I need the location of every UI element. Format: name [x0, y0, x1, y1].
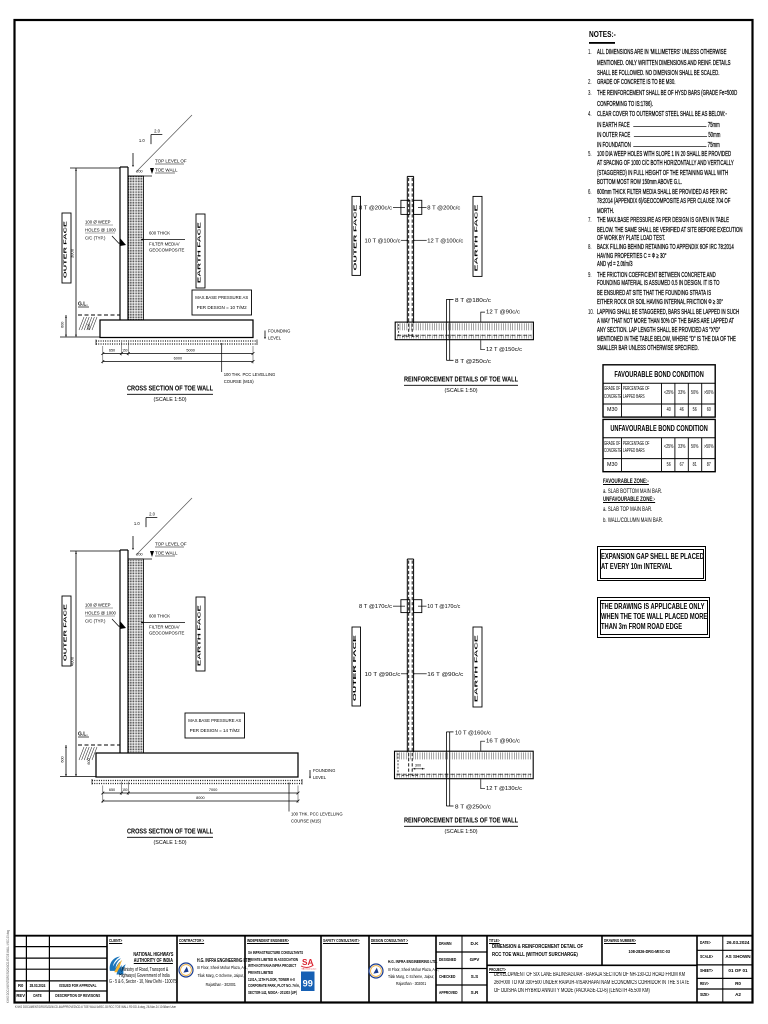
- svg-text:REINFORCEMENT DETAILS OF TOE W: REINFORCEMENT DETAILS OF TOE WALL: [404, 375, 518, 384]
- svg-text:EARTH FACE: EARTH FACE: [474, 205, 479, 272]
- svg-text:8 T @200c/c: 8 T @200c/c: [359, 205, 392, 211]
- svg-text:EARTH FACE: EARTH FACE: [197, 605, 202, 666]
- svg-text:12 T @130c/c: 12 T @130c/c: [486, 786, 522, 792]
- svg-text:600: 600: [87, 758, 91, 764]
- svg-text:OUTER FACE: OUTER FACE: [352, 635, 357, 701]
- svg-text:100 THK. PCC LEVELLING: 100 THK. PCC LEVELLING: [224, 372, 276, 377]
- svg-text:8 T @250c/c: 8 T @250c/c: [455, 805, 491, 811]
- svg-text:2.0: 2.0: [154, 129, 160, 134]
- svg-text:3000: 3000: [70, 248, 75, 258]
- svg-text:2.0: 2.0: [149, 512, 155, 517]
- svg-text:6000: 6000: [174, 357, 182, 361]
- svg-text:1.0: 1.0: [134, 521, 140, 526]
- svg-text:MAX.BASE PRESSURE AS: MAX.BASE PRESSURE AS: [195, 295, 248, 300]
- svg-text:TOE WALL: TOE WALL: [155, 168, 178, 173]
- svg-text:GEOCOMPOSITE: GEOCOMPOSITE: [149, 248, 184, 253]
- svg-text:10 T @170c/c: 10 T @170c/c: [427, 604, 460, 610]
- svg-text:650: 650: [109, 349, 115, 353]
- svg-text:10 T @160c/c: 10 T @160c/c: [455, 730, 491, 736]
- svg-text:EARTH FACE: EARTH FACE: [197, 222, 202, 283]
- svg-text:10 T @90c/c: 10 T @90c/c: [365, 672, 401, 678]
- svg-text:OUTER FACE: OUTER FACE: [352, 205, 357, 271]
- svg-text:EARTH FACE: EARTH FACE: [474, 635, 479, 702]
- svg-text:MAX.BASE PRESSURE AS: MAX.BASE PRESSURE AS: [188, 718, 241, 723]
- svg-text:(SCALE 1:50): (SCALE 1:50): [154, 840, 187, 846]
- svg-text:150: 150: [122, 788, 128, 792]
- svg-text:LEVEL: LEVEL: [313, 775, 327, 780]
- svg-text:8 T @180c/c: 8 T @180c/c: [455, 298, 491, 304]
- svg-text:8 T @200c/c: 8 T @200c/c: [427, 205, 460, 211]
- svg-text:TOP LEVEL OF: TOP LEVEL OF: [155, 542, 187, 547]
- svg-text:G.L.: G.L.: [78, 732, 88, 738]
- svg-text:150: 150: [122, 349, 128, 353]
- svg-text:C/C (TYP.): C/C (TYP.): [85, 236, 106, 241]
- svg-text:12 T @150c/c: 12 T @150c/c: [486, 347, 522, 353]
- svg-text:G.L.: G.L.: [78, 302, 88, 308]
- svg-text:REINFORCEMENT DETAILS OF TOE W: REINFORCEMENT DETAILS OF TOE WALL: [404, 816, 518, 825]
- svg-text:HOLES @ 1000: HOLES @ 1000: [85, 611, 116, 616]
- svg-text:8 T @250c/c: 8 T @250c/c: [455, 359, 491, 365]
- svg-text:600: 600: [61, 322, 65, 328]
- svg-text:1.0: 1.0: [139, 138, 145, 143]
- svg-text:600: 600: [87, 324, 91, 330]
- svg-text:16 T @90c/c: 16 T @90c/c: [427, 672, 463, 678]
- svg-text:(SCALE 1:50): (SCALE 1:50): [445, 388, 478, 394]
- svg-text:5000: 5000: [186, 349, 194, 353]
- svg-text:4000: 4000: [70, 656, 75, 666]
- svg-text:12 T @90c/c: 12 T @90c/c: [486, 310, 520, 316]
- svg-text:99: 99: [303, 979, 313, 989]
- svg-text:100 Ø WEEP: 100 Ø WEEP: [85, 220, 111, 225]
- svg-text:HOLES @ 1000: HOLES @ 1000: [85, 228, 116, 233]
- svg-text:10 T @100c/c: 10 T @100c/c: [365, 238, 401, 244]
- svg-text:600 THICK: 600 THICK: [149, 231, 170, 236]
- svg-text:100 Ø WEEP: 100 Ø WEEP: [85, 603, 111, 608]
- svg-text:(SCALE 1:50): (SCALE 1:50): [445, 829, 478, 835]
- svg-text:C/C (TYP.): C/C (TYP.): [85, 619, 106, 624]
- svg-text:SA Infrastructure: SA Infrastructure: [302, 968, 318, 971]
- svg-text:FILTER MEDIA/: FILTER MEDIA/: [149, 625, 180, 630]
- svg-text:FOUNDING: FOUNDING: [313, 768, 335, 773]
- svg-text:GEOCOMPOSITE: GEOCOMPOSITE: [149, 631, 184, 636]
- svg-text:300: 300: [415, 764, 421, 768]
- svg-text:FOUNDING: FOUNDING: [268, 329, 290, 334]
- svg-text:CROSS SECTION OF TOE WALL: CROSS SECTION OF TOE WALL: [127, 827, 213, 836]
- svg-text:TOP LEVEL OF: TOP LEVEL OF: [155, 159, 187, 164]
- svg-text:OUTER FACE: OUTER FACE: [63, 221, 68, 278]
- svg-text:200: 200: [136, 170, 142, 174]
- svg-text:8 T @170c/c: 8 T @170c/c: [359, 604, 392, 610]
- svg-text:PER DESIGN = 10 T/M2: PER DESIGN = 10 T/M2: [197, 305, 248, 310]
- svg-text:TOE WALL: TOE WALL: [155, 551, 178, 556]
- svg-text:COURSE (M15): COURSE (M15): [291, 819, 322, 824]
- svg-text:650: 650: [109, 788, 115, 792]
- svg-text:7000: 7000: [209, 788, 217, 792]
- svg-text:200: 200: [136, 553, 142, 557]
- svg-text:LEVEL: LEVEL: [268, 336, 282, 341]
- svg-text:8000: 8000: [196, 796, 204, 800]
- svg-text:600 THICK: 600 THICK: [149, 614, 170, 619]
- svg-text:FILTER MEDIA/: FILTER MEDIA/: [149, 242, 180, 247]
- svg-text:COURSE (M15): COURSE (M15): [224, 379, 255, 384]
- svg-text:12 T @100c/c: 12 T @100c/c: [427, 238, 463, 244]
- svg-text:PER DESIGN = 14 T/M2: PER DESIGN = 14 T/M2: [190, 728, 241, 733]
- svg-text:600: 600: [61, 756, 65, 762]
- svg-text:OUTER FACE: OUTER FACE: [63, 604, 68, 661]
- svg-text:100 THK. PCC LEVELLING: 100 THK. PCC LEVELLING: [291, 812, 343, 817]
- svg-text:(SCALE 1:50): (SCALE 1:50): [154, 397, 187, 403]
- svg-text:CROSS SECTION OF TOE WALL: CROSS SECTION OF TOE WALL: [127, 384, 213, 393]
- svg-text:16 T @90c/c: 16 T @90c/c: [486, 739, 520, 745]
